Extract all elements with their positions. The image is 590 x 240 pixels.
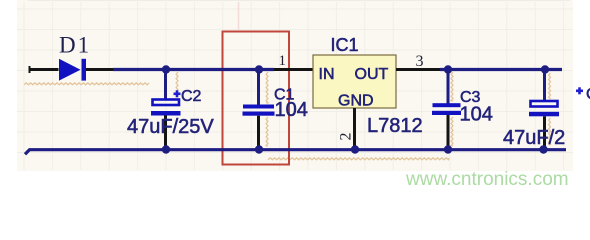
red ghost artifact above highlight rect xyxy=(238,2,240,30)
junction node: GND bottom xyxy=(351,145,359,153)
svg-text:OUT: OUT xyxy=(355,66,389,83)
C4 plus sign xyxy=(576,87,583,94)
wire: top rail right (navy) xyxy=(440,68,562,71)
junction node: C3 bottom xyxy=(444,145,452,153)
svg-text:104: 104 xyxy=(275,99,308,121)
svg-text:2: 2 xyxy=(338,133,355,141)
capacitor C4 top lead xyxy=(543,70,546,101)
svg-text:C4: C4 xyxy=(586,86,590,103)
diode D1 pin right xyxy=(86,68,113,71)
capacitor C1 plates xyxy=(243,105,274,109)
wire: bottom rail xyxy=(25,150,566,155)
wire: top rail left (navy) xyxy=(113,68,274,71)
diode D1 pin left with terminal tick xyxy=(29,66,59,73)
capacitor C3 bottom lead xyxy=(447,115,450,148)
op-amp-like regulator body IC1 xyxy=(313,55,396,108)
junction node: C4 bottom xyxy=(539,145,547,153)
IC1 pin 1 (IN) xyxy=(274,68,313,71)
error squiggle right of C3 bottom lead xyxy=(451,117,453,146)
junction node: rail-C4 top xyxy=(541,65,549,73)
junction node: C2 bottom xyxy=(162,145,170,153)
error squiggle right of C4 bottom lead xyxy=(549,118,551,145)
IC1 pin 2 (GND) xyxy=(353,108,356,148)
diode D1 xyxy=(59,59,86,81)
red highlight rectangle around C1 xyxy=(223,32,290,165)
capacitor C3 plates xyxy=(433,103,461,107)
svg-text:1: 1 xyxy=(279,53,287,69)
capacitor C1 top lead xyxy=(257,70,260,106)
svg-text:IN: IN xyxy=(319,66,335,83)
junction node: OUT-C3 top xyxy=(444,65,452,73)
svg-text:3: 3 xyxy=(416,53,424,70)
svg-text:GND: GND xyxy=(338,93,374,110)
svg-text:www.cntronics.com: www.cntronics.com xyxy=(405,169,569,190)
svg-text:47uF/25V: 47uF/25V xyxy=(503,127,590,149)
capacitor C4 bottom lead xyxy=(543,116,546,148)
svg-text:L7812: L7812 xyxy=(367,115,423,137)
top crop edge line xyxy=(28,0,570,2)
error squiggle under input wire xyxy=(24,83,149,85)
C2 plus sign xyxy=(174,90,181,97)
capacitor C1 bottom lead xyxy=(257,116,260,148)
junction node: C1 bottom xyxy=(255,145,263,153)
IC1 pin 3 (OUT) xyxy=(396,68,440,71)
error squiggle under bottom rail xyxy=(268,158,449,160)
junction node: rail-C2 top xyxy=(162,65,170,73)
svg-text:104: 104 xyxy=(460,104,493,126)
svg-text:47uF/25V: 47uF/25V xyxy=(127,116,214,138)
error squiggle right of C3 top lead xyxy=(451,72,453,101)
capacitor C4 plates (polarized) xyxy=(531,101,558,107)
error squiggle right of C4 top lead xyxy=(549,73,551,99)
svg-text:D1: D1 xyxy=(59,33,91,58)
capacitor C2 bottom lead xyxy=(164,116,167,149)
schematic background xyxy=(17,0,573,171)
capacitor C3 top lead xyxy=(447,70,450,104)
error squiggle right of C1 top lead xyxy=(266,72,268,103)
capacitor C2 plates (polarized) xyxy=(153,100,180,106)
error squiggle right of C2 top lead xyxy=(176,72,178,91)
svg-text:C2: C2 xyxy=(181,88,202,105)
capacitor C2 top lead xyxy=(164,70,167,100)
junction node: rail-C1 top xyxy=(255,65,263,73)
value 47uF/2 (clipped) xyxy=(503,127,590,149)
svg-text:IC1: IC1 xyxy=(331,35,359,55)
error squiggle right of C1 bottom lead xyxy=(266,117,268,146)
